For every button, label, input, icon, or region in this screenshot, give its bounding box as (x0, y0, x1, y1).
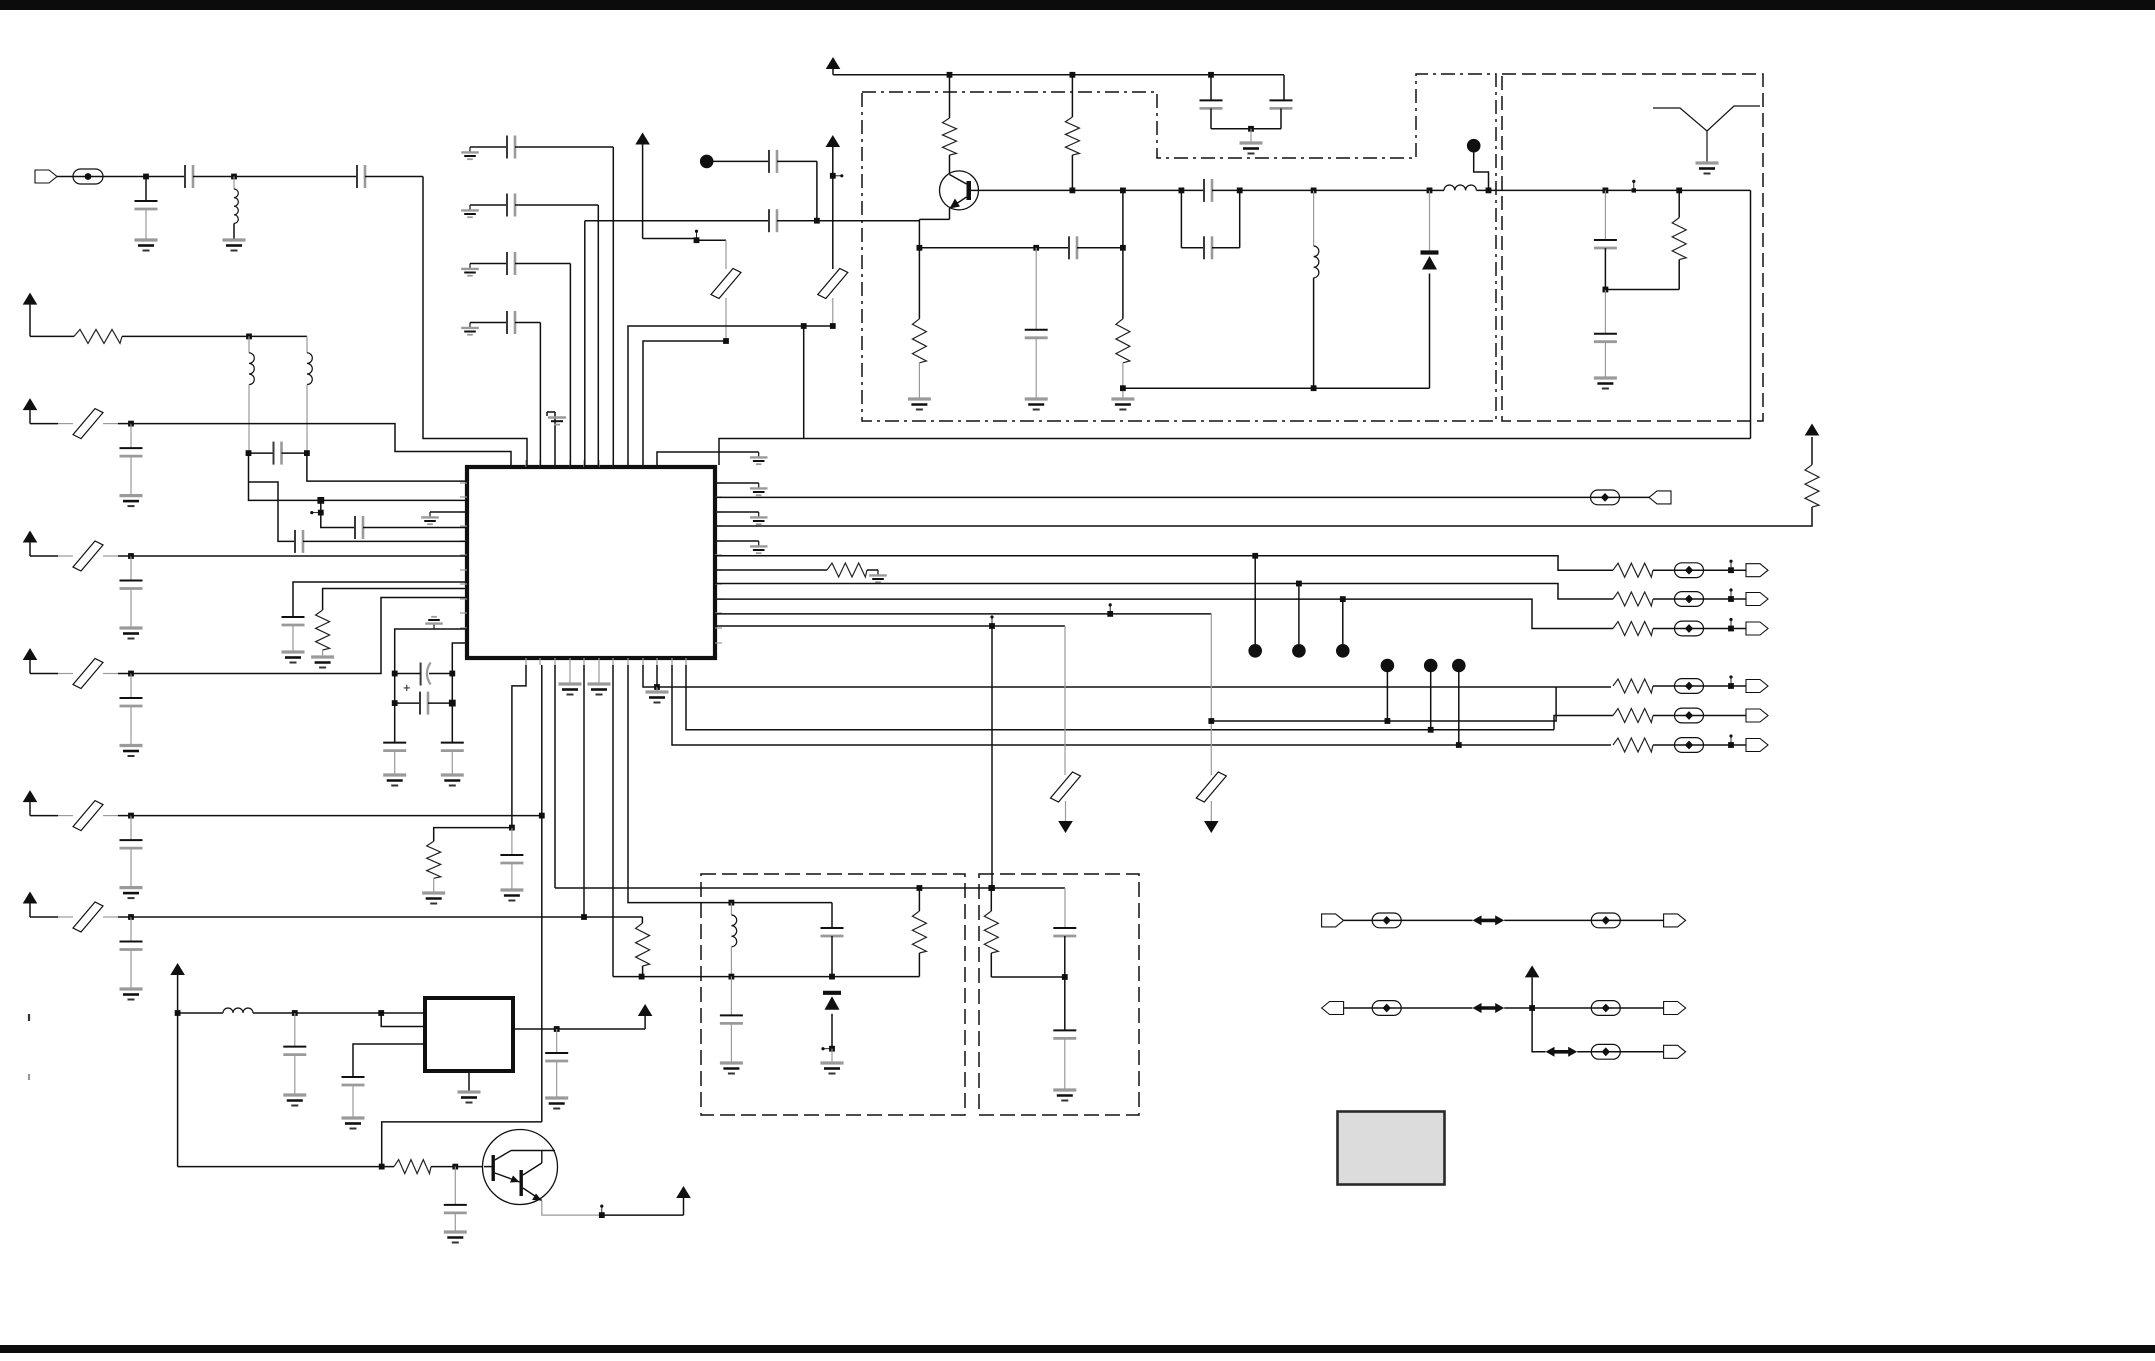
svg-text:+: + (403, 680, 411, 695)
